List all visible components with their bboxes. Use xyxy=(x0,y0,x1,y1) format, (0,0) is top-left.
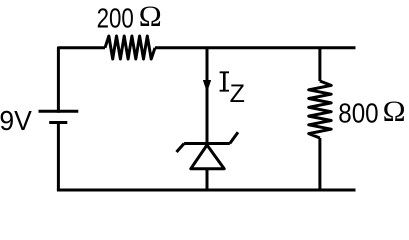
wire: bottom rail xyxy=(57,189,356,192)
wire: battery negative to bottom rail xyxy=(57,123,60,191)
zener diode: cathode bar xyxy=(184,142,230,145)
current arrow IZ (downward arrowhead on middle branch) xyxy=(203,80,211,93)
wire: right branch from top rail to 800ohm resistor xyxy=(318,48,321,81)
svg-text:Ω: Ω xyxy=(383,96,406,128)
label IZ: current symbol I (drawn with serifs) xyxy=(220,71,229,91)
zener diode: bent end right xyxy=(230,132,238,143)
resistor 200ohm (series, horizontal zigzag) xyxy=(105,36,155,59)
zener diode: triangle (anode) xyxy=(191,145,224,169)
resistor 800ohm (load, vertical zigzag) xyxy=(309,81,332,138)
svg-text:800: 800 xyxy=(338,98,378,129)
wire: 800ohm resistor to bottom rail xyxy=(318,138,321,190)
battery 9V: long plate (positive) xyxy=(39,110,79,113)
wire: zener anode to bottom rail xyxy=(206,169,209,190)
battery 9V: short plate (negative) xyxy=(49,121,67,124)
zener diode: bent end left xyxy=(177,144,185,153)
svg-text:Ω: Ω xyxy=(139,1,162,33)
wire: middle branch from top rail to zener cathode xyxy=(206,48,209,144)
wire: left branch top (battery positive up to top rail corner) xyxy=(58,48,105,113)
svg-text:Z: Z xyxy=(230,80,245,108)
wire: top rail from resistor through middle node to right stub xyxy=(155,46,356,49)
svg-text:9V: 9V xyxy=(0,105,33,136)
svg-text:200: 200 xyxy=(97,3,134,34)
